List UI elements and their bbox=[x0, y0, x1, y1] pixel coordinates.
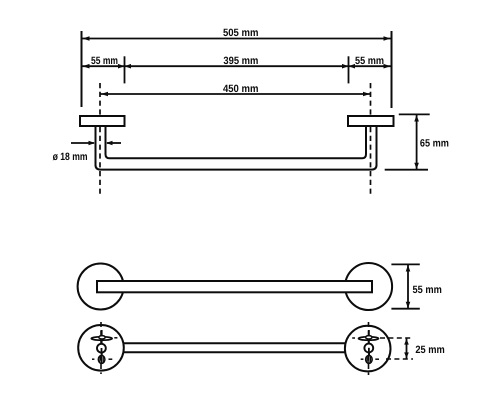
extension line left (overall) bbox=[81, 31, 83, 107]
wall plate right (side view) bbox=[348, 116, 394, 126]
wall plate left (side view) bbox=[80, 116, 125, 126]
label 450 mm bbox=[223, 83, 259, 95]
svg-text:450 mm: 450 mm bbox=[223, 83, 259, 95]
svg-text:65 mm: 65 mm bbox=[420, 137, 449, 149]
left rosette vertical center line (dashed) bbox=[100, 322, 102, 374]
label 55 mm left bbox=[91, 55, 118, 67]
top view: bar (two lines) bbox=[123, 343, 345, 352]
extension line right (overall) bbox=[391, 31, 393, 108]
svg-text:ø 18 mm: ø 18 mm bbox=[53, 151, 88, 163]
top view: left rosette circle bbox=[78, 325, 124, 371]
dimension 55 mm (front view) bbox=[391, 264, 419, 308]
svg-text:55 mm: 55 mm bbox=[413, 284, 442, 296]
svg-text:25 mm: 25 mm bbox=[415, 344, 444, 356]
label 25 mm bbox=[415, 344, 444, 356]
label 505 mm bbox=[223, 27, 259, 39]
dimension line 505 mm bbox=[82, 36, 391, 41]
left rosette horizontal center line dashes bbox=[92, 338, 117, 359]
dimension line 55 / 395 / 55 mm bbox=[82, 56, 391, 83]
right rosette vertical center line (dashed) bbox=[368, 322, 370, 375]
front view: left rosette circle bbox=[78, 264, 124, 310]
svg-text:395 mm: 395 mm bbox=[223, 55, 258, 67]
dimension 65 mm bbox=[385, 114, 430, 169]
tube outline (post + bar, side view) bbox=[96, 126, 377, 170]
svg-text:55 mm: 55 mm bbox=[355, 55, 384, 67]
center line left post (dashed) bbox=[99, 83, 101, 195]
label 65 mm bbox=[420, 137, 449, 149]
left rosette screw symbol bbox=[91, 330, 112, 363]
right rosette screw symbol bbox=[359, 330, 379, 363]
svg-text:505 mm: 505 mm bbox=[223, 27, 259, 39]
label 55 mm (front view) bbox=[413, 284, 442, 296]
label diameter 18 mm bbox=[53, 151, 88, 163]
front view: right rosette circle bbox=[345, 263, 392, 310]
top view: right rosette circle bbox=[345, 326, 391, 372]
svg-text:55 mm: 55 mm bbox=[91, 55, 118, 67]
dimension line 450 mm bbox=[101, 92, 371, 97]
center line right post (dashed) bbox=[370, 83, 372, 195]
right rosette horizontal center line dashes bbox=[352, 338, 379, 359]
label 395 mm bbox=[223, 55, 258, 67]
dimension 25 mm (top view, dashed extension lines) bbox=[380, 338, 413, 359]
diameter 18 mm arrows bbox=[71, 141, 121, 146]
front view: bar bbox=[97, 281, 372, 292]
label 55 mm right bbox=[355, 55, 384, 67]
